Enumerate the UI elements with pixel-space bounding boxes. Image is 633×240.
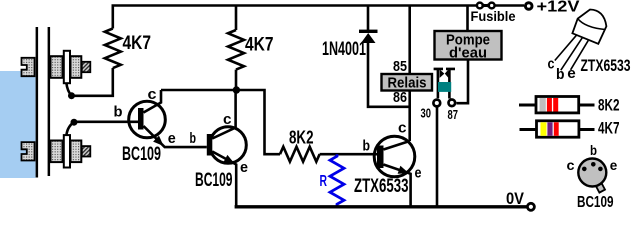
- svg-text:e: e: [240, 159, 248, 176]
- svg-text:8K2: 8K2: [598, 96, 620, 114]
- svg-text:c: c: [548, 56, 555, 73]
- svg-text:Relais: Relais: [388, 74, 427, 91]
- svg-text:c: c: [223, 111, 232, 128]
- svg-text:e: e: [168, 130, 176, 147]
- svg-text:e: e: [567, 65, 576, 82]
- svg-text:b: b: [590, 142, 597, 158]
- svg-text:Fusible: Fusible: [471, 9, 516, 24]
- svg-text:85: 85: [393, 59, 407, 75]
- svg-text:c: c: [398, 120, 407, 137]
- svg-text:b: b: [114, 104, 123, 121]
- svg-text:b: b: [190, 130, 197, 147]
- svg-text:e: e: [610, 157, 618, 173]
- svg-text:86: 86: [393, 90, 407, 106]
- svg-text:BC109: BC109: [195, 170, 233, 191]
- svg-text:BC109: BC109: [122, 144, 161, 165]
- svg-text:4K7: 4K7: [245, 35, 274, 56]
- svg-text:c: c: [148, 86, 157, 103]
- svg-text:0V: 0V: [506, 190, 524, 208]
- svg-text:e: e: [415, 164, 422, 181]
- svg-text:4K7: 4K7: [598, 120, 620, 138]
- svg-text:8K2: 8K2: [289, 127, 314, 148]
- svg-text:1N4001: 1N4001: [322, 39, 366, 60]
- svg-text:+12V: +12V: [537, 0, 581, 15]
- svg-text:c: c: [567, 157, 575, 173]
- svg-text:BC109: BC109: [577, 194, 614, 211]
- svg-text:d'eau: d'eau: [449, 45, 487, 62]
- svg-text:ZTX6533: ZTX6533: [354, 176, 409, 197]
- svg-text:R: R: [320, 173, 328, 190]
- svg-text:b: b: [363, 138, 371, 155]
- svg-text:30: 30: [421, 106, 432, 121]
- svg-text:87: 87: [448, 107, 459, 122]
- svg-text:ZTX6533: ZTX6533: [581, 56, 631, 75]
- svg-text:b: b: [556, 66, 565, 83]
- svg-text:4K7: 4K7: [123, 33, 152, 54]
